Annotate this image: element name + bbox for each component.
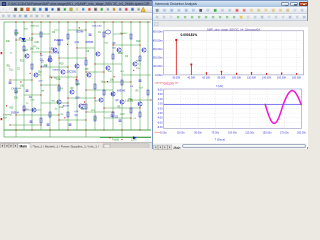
svg-text:160.00K: 160.00K [277, 76, 287, 79]
svg-text:-8.00: -8.00 [157, 126, 163, 129]
svg-text:51.1: 51.1 [9, 70, 14, 72]
svg-text:2.00: 2.00 [158, 103, 163, 106]
svg-text:OM6 2k2: OM6 2k2 [30, 26, 40, 28]
svg-text:40.00K: 40.00K [187, 76, 195, 79]
svg-text:MJE340: MJE340 [117, 90, 126, 92]
svg-text:T (Secs): T (Secs) [215, 137, 226, 141]
svg-text:TvdXd: TvdXd [112, 139, 120, 141]
svg-text:8.00: 8.00 [158, 89, 163, 92]
svg-text:175.00u: 175.00u [280, 132, 290, 135]
svg-text:MJE350: MJE350 [53, 69, 62, 71]
svg-text:DK6HC: DK6HC [120, 33, 128, 35]
svg-text:Q12: Q12 [75, 42, 80, 44]
svg-text:1N4148: 1N4148 [51, 52, 60, 54]
svg-text:100.00m: 100.00m [153, 64, 163, 68]
svg-text:Q10: Q10 [75, 98, 80, 100]
svg-text:R18: R18 [136, 41, 141, 43]
svg-text:300.00m: 300.00m [153, 47, 163, 51]
svg-text:2SA1302: 2SA1302 [54, 39, 64, 42]
svg-text:60.00K: 60.00K [202, 76, 210, 79]
svg-text:21-In: 21-In [131, 139, 137, 141]
svg-text:GX4HH0-: GX4HH0- [3, 115, 13, 117]
svg-text:R20: R20 [59, 64, 64, 66]
svg-text:20.00K: 20.00K [172, 76, 180, 79]
svg-text:f (Hz): f (Hz) [216, 84, 223, 88]
svg-text:150.00u: 150.00u [263, 132, 273, 135]
svg-text:4.00: 4.00 [158, 98, 163, 101]
svg-text:100.00K: 100.00K [232, 76, 242, 79]
svg-text:80.00K: 80.00K [217, 76, 225, 79]
svg-text:0.00: 0.00 [158, 107, 163, 110]
svg-text:120.00K: 120.00K [247, 76, 257, 79]
svg-text:100.00u: 100.00u [228, 132, 238, 135]
svg-text:0.47: 0.47 [120, 114, 125, 116]
svg-text:R12: R12 [20, 61, 25, 63]
svg-text:6.00: 6.00 [158, 93, 163, 96]
svg-text:400.00m: 400.00m [153, 38, 163, 42]
svg-text:-4.00: -4.00 [157, 117, 163, 120]
svg-text:2N5566: 2N5566 [85, 42, 94, 44]
svg-text:2SC3281: 2SC3281 [67, 72, 77, 74]
svg-text:140.00K: 140.00K [262, 76, 272, 79]
svg-text:125.00u: 125.00u [245, 132, 255, 135]
svg-text:0.000181%: 0.000181% [181, 33, 198, 37]
svg-text:500.00m: 500.00m [153, 30, 163, 34]
svg-text:AMP_sine_stage_BSV3C_h4_2dets/: AMP_sine_stage_BSV3C_h4_2dets/par0A [207, 27, 260, 31]
svg-text:100n: 100n [118, 53, 124, 55]
svg-text:75.00u: 75.00u [211, 132, 219, 135]
svg-text:220k DK6: 220k DK6 [92, 26, 102, 28]
svg-text:50.00u: 50.00u [194, 132, 202, 135]
svg-text:R22: R22 [24, 50, 29, 52]
svg-text:0.00m: 0.00m [155, 73, 163, 77]
svg-text:(Secs): (Secs) [155, 132, 162, 134]
svg-text:-2.00: -2.00 [157, 112, 163, 115]
svg-text:25.00u: 25.00u [177, 132, 185, 135]
svg-text:v(Out) (V): v(Out) (V) [164, 83, 174, 86]
svg-text:LED: LED [50, 49, 55, 51]
svg-text:-6.00: -6.00 [157, 121, 163, 124]
svg-text:BC546: BC546 [76, 31, 84, 33]
svg-text:200.00u: 200.00u [297, 132, 307, 135]
svg-text:180.00K: 180.00K [292, 76, 302, 79]
svg-text:Main: Main [174, 146, 181, 150]
svg-text:BD139: BD139 [63, 106, 70, 108]
svg-text:200.00m: 200.00m [153, 56, 163, 60]
svg-text:BC556: BC556 [41, 66, 48, 68]
svg-text:0.00u: 0.00u [160, 132, 167, 135]
